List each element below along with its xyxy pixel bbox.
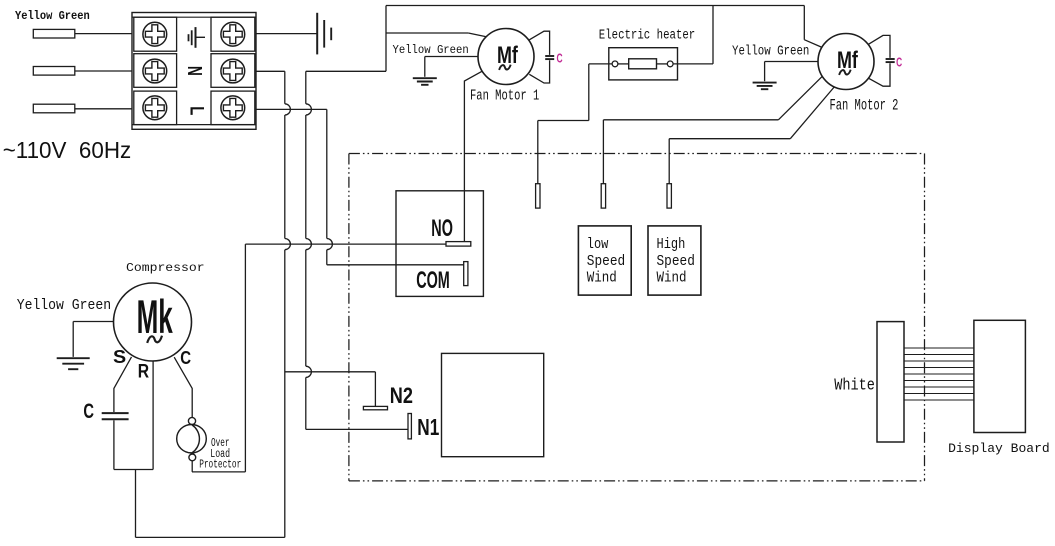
svg-text:Display Board: Display Board (948, 441, 1050, 456)
svg-text:High: High (657, 237, 686, 253)
svg-text:Yellow Green: Yellow Green (393, 43, 469, 57)
svg-text:N2: N2 (390, 383, 413, 408)
svg-text:C: C (896, 56, 902, 70)
svg-text:Mf: Mf (497, 41, 519, 68)
svg-text:L: L (186, 106, 209, 115)
svg-text:N: N (183, 66, 207, 76)
svg-text:Wind: Wind (657, 271, 687, 287)
svg-text:Fan Motor 2: Fan Motor 2 (830, 97, 899, 115)
svg-text:C: C (180, 348, 191, 369)
svg-text:Mk: Mk (137, 291, 174, 344)
svg-text:Protector: Protector (199, 458, 241, 471)
svg-text:N1: N1 (417, 414, 439, 440)
svg-text:Mf: Mf (837, 46, 859, 73)
svg-text:White: White (834, 378, 875, 395)
svg-text:Speed: Speed (587, 253, 625, 270)
svg-text:S: S (113, 347, 126, 367)
svg-text:NO: NO (431, 216, 453, 243)
svg-text:Yellow Green: Yellow Green (732, 43, 809, 59)
svg-text:Over: Over (211, 437, 230, 450)
svg-text:Wind: Wind (587, 271, 617, 287)
svg-text:COM: COM (416, 267, 450, 294)
svg-text:Electric heater: Electric heater (599, 28, 695, 43)
svg-text:Yellow Green: Yellow Green (15, 11, 90, 24)
svg-text:Fan Motor 1: Fan Motor 1 (470, 87, 539, 104)
svg-text:R: R (138, 360, 150, 382)
svg-text:Yellow Green: Yellow Green (17, 298, 111, 315)
svg-text:~110V 60Hz: ~110V 60Hz (3, 136, 132, 163)
svg-text:C: C (83, 399, 94, 422)
svg-text:Compressor: Compressor (126, 261, 205, 274)
svg-text:Speed: Speed (657, 253, 695, 270)
svg-text:low: low (587, 237, 609, 253)
svg-text:C: C (557, 52, 563, 66)
